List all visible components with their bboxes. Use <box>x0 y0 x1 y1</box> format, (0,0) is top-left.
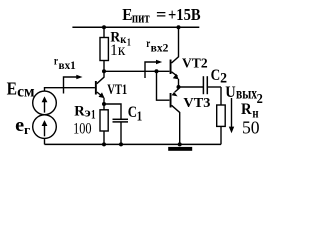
label r_vx2 <box>146 36 168 54</box>
transistor VT2 <box>170 27 179 87</box>
label C1 <box>128 104 143 124</box>
transistor VT1 <box>95 71 105 104</box>
node C1-gnd <box>119 142 123 146</box>
arrow r_vx1 <box>64 75 83 94</box>
svg-text:1: 1 <box>127 37 131 49</box>
svg-text:см: см <box>17 84 35 101</box>
label r_vx1 <box>54 54 76 73</box>
node rail-RK1 <box>102 25 106 29</box>
svg-text:=: = <box>156 5 166 24</box>
node bases junction <box>155 69 159 73</box>
wire to VT3 base <box>157 71 170 100</box>
resistor RE1 <box>100 104 108 144</box>
svg-text:С: С <box>128 104 137 121</box>
svg-text:е: е <box>15 115 24 136</box>
label eg <box>15 115 30 137</box>
svg-text:+15В: +15В <box>168 5 201 24</box>
resistor Rn load <box>217 87 226 144</box>
ground symbol <box>168 147 192 151</box>
node output emitters <box>177 85 181 89</box>
label Esm <box>7 79 35 101</box>
wire output node to C2 <box>179 86 204 88</box>
svg-text:100: 100 <box>73 121 92 138</box>
wire emitter to C1 <box>104 104 121 119</box>
label RK1 <box>110 30 130 49</box>
svg-text:пит: пит <box>132 10 150 26</box>
source Esm <box>33 91 57 115</box>
svg-text:1: 1 <box>137 109 143 124</box>
arrow r_vx2 <box>145 60 162 78</box>
svg-text:Е: Е <box>7 79 17 99</box>
svg-text:1: 1 <box>91 107 96 122</box>
node VT3-gnd <box>178 142 182 146</box>
svg-text:вх1: вх1 <box>59 60 77 72</box>
label C2 <box>211 67 227 87</box>
node rail-VT2 collector <box>177 25 181 29</box>
svg-text:VT3: VT3 <box>183 96 210 111</box>
svg-text:1к: 1к <box>110 42 126 59</box>
svg-text:R: R <box>74 103 85 119</box>
svg-text:U: U <box>225 84 236 101</box>
svg-text:вх2: вх2 <box>151 43 169 55</box>
resistor RK1 <box>100 27 108 71</box>
svg-text:г: г <box>24 122 30 137</box>
transistor VT3 <box>170 87 180 144</box>
svg-text:С: С <box>211 67 221 84</box>
node A collector VT1 <box>102 69 106 73</box>
svg-text:VT2: VT2 <box>182 57 208 72</box>
capacitor C1 <box>113 119 129 144</box>
label E_pit = +15V <box>122 5 200 26</box>
label RE1 <box>74 103 95 121</box>
wire node A to VT2 base <box>104 70 169 72</box>
svg-text:вых: вых <box>236 85 257 102</box>
label U_vyx2 <box>225 84 263 107</box>
arrow U_vyx2 <box>229 98 234 133</box>
capacitor C2 <box>203 76 221 94</box>
svg-text:50: 50 <box>242 117 260 137</box>
svg-text:2: 2 <box>257 92 263 107</box>
source eg <box>33 115 57 145</box>
wire sources to VT1 base <box>45 88 95 92</box>
node emitter VT1 <box>102 102 106 106</box>
label Rn <box>241 101 259 122</box>
ground rail <box>45 143 222 145</box>
node RE1-gnd <box>102 142 106 146</box>
svg-text:R: R <box>241 101 252 118</box>
power rail Epit <box>72 26 199 28</box>
svg-text:VT1: VT1 <box>107 82 127 98</box>
